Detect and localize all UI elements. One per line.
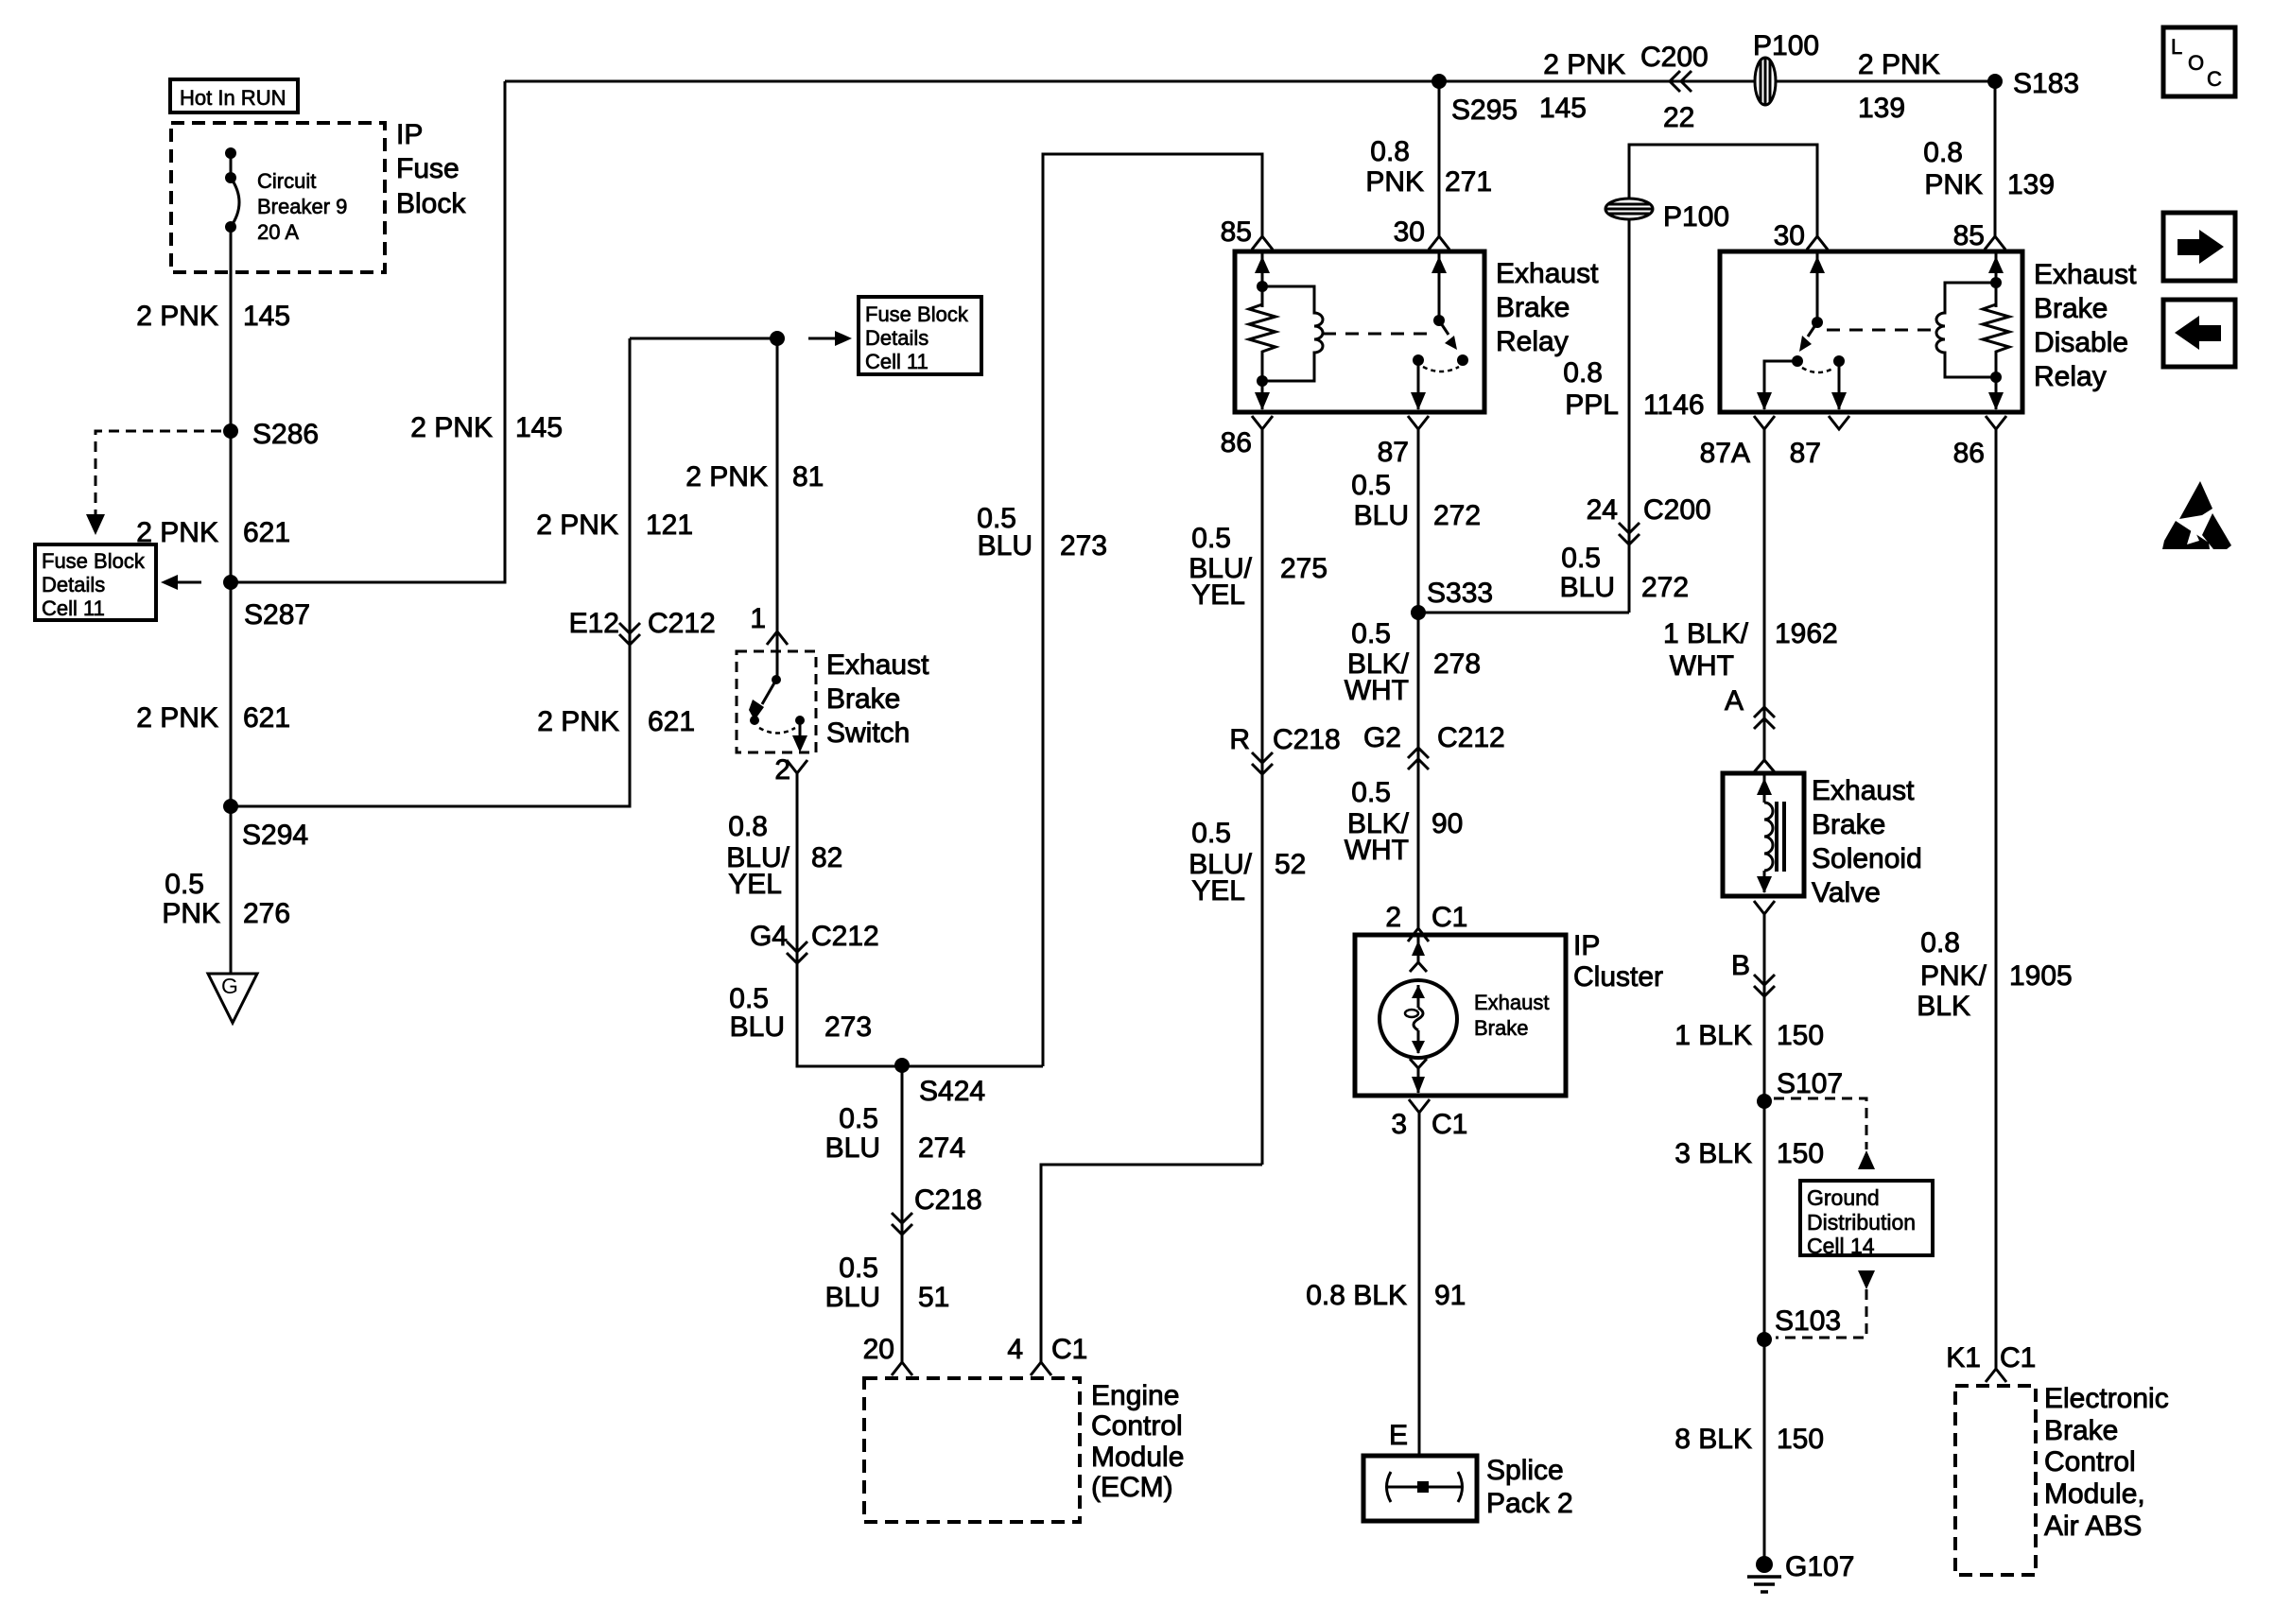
svg-text:85: 85: [1221, 216, 1252, 248]
svg-text:PPL: PPL: [1565, 389, 1619, 421]
disable relay pin 85: [1953, 220, 2005, 251]
svg-text:139: 139: [2007, 169, 2055, 200]
svg-text:2 PNK: 2 PNK: [537, 706, 619, 737]
svg-text:30: 30: [1774, 220, 1805, 251]
svg-text:E: E: [1389, 1420, 1408, 1451]
wire: pin 3 down to splice pack: [1418, 1113, 1421, 1456]
wire: disable relay 86 down to ABS module: [1995, 429, 1998, 1369]
svg-text:22: 22: [1663, 102, 1694, 133]
svg-text:2 PNK: 2 PNK: [410, 412, 493, 443]
svg-text:WHT: WHT: [1345, 675, 1409, 706]
svg-text:85: 85: [1953, 220, 1985, 251]
svg-text:30: 30: [1394, 216, 1425, 248]
svg-text:G4: G4: [750, 921, 788, 952]
exhaust brake disable relay box: [1720, 251, 2022, 412]
svg-text:121: 121: [646, 510, 693, 541]
svg-text:2: 2: [1385, 902, 1401, 933]
svg-text:Exhaust: Exhaust: [1474, 991, 1550, 1014]
svg-text:81: 81: [792, 461, 824, 492]
svg-text:S183: S183: [2013, 68, 2079, 99]
svg-text:Disable: Disable: [2034, 327, 2128, 358]
pin 2 of exhaust brake switch: [774, 754, 807, 786]
wire: disable relay pin 30 riser through P100/C200 to S333 branch: [1629, 145, 1817, 613]
ground G107: [1747, 1551, 1854, 1592]
wire label 2 PNK 139: [1858, 49, 1940, 124]
wire label 0.8 BLU/YEL 82: [726, 811, 842, 900]
wire label 2 PNK 121: [536, 510, 693, 541]
svg-text:Electronic: Electronic: [2044, 1383, 2169, 1414]
svg-text:91: 91: [1434, 1280, 1466, 1311]
disable relay pin 87A: [1700, 416, 1775, 469]
svg-text:0.5: 0.5: [1191, 818, 1231, 849]
svg-text:Circuit: Circuit: [257, 169, 316, 193]
wire label 0.8 PNK 139: [1923, 137, 2055, 200]
svg-text:274: 274: [918, 1132, 965, 1164]
wire label 0.5 BLU 273 (switch leg): [729, 983, 872, 1043]
svg-text:C212: C212: [811, 921, 879, 952]
svg-text:Cell 11: Cell 11: [865, 350, 928, 373]
wire label 0.8 PPL 1146: [1563, 357, 1704, 421]
wire label 2 PNK 621 (lower): [136, 702, 290, 734]
top bus P100 pass-through: [1753, 30, 1819, 105]
svg-text:2 PNK: 2 PNK: [136, 301, 218, 332]
svg-text:YEL: YEL: [1191, 579, 1245, 611]
svg-text:YEL: YEL: [728, 869, 782, 900]
svg-text:Valve: Valve: [1812, 877, 1881, 908]
svg-text:B: B: [1731, 950, 1750, 981]
wire label 0.5 BLK/WHT 90: [1345, 777, 1464, 866]
wire label 0.5 BLU 272 (PPL riser bottom): [1560, 543, 1689, 603]
svg-text:PNK/: PNK/: [1920, 960, 1987, 992]
wire: solenoid down to G107: [1763, 914, 1766, 1564]
exhaust brake indicator lamp: [1379, 935, 1457, 1094]
svg-text:86: 86: [1953, 438, 1985, 469]
arrow into Fuse Block Details box (middle): [808, 331, 852, 346]
wire label 2 PNK 81: [685, 461, 824, 492]
relay actuating dashed link: [1323, 333, 1430, 336]
wire label 0.5 BLU/YEL 275: [1189, 523, 1327, 611]
svg-text:IP: IP: [1573, 930, 1600, 961]
dashed reference S107 to ground distribution: [1774, 1098, 1875, 1169]
dashed reference ground distribution to S103: [1776, 1270, 1875, 1338]
svg-text:0.5: 0.5: [1351, 777, 1391, 808]
relay pin 87: [1378, 416, 1429, 468]
svg-text:IP: IP: [396, 119, 423, 150]
wire label 2 PNK 621: [136, 517, 290, 548]
svg-text:0.5: 0.5: [1561, 543, 1601, 574]
svg-text:272: 272: [1641, 572, 1689, 603]
svg-text:2 PNK: 2 PNK: [1543, 49, 1625, 80]
svg-text:BLU: BLU: [825, 1282, 880, 1313]
ECM label: [1091, 1380, 1184, 1503]
wire label 0.8 PNK/BLK 1905: [1917, 927, 2072, 1022]
circuit breaker text: [257, 169, 347, 244]
disable relay actuating dashed link: [1827, 329, 1934, 332]
exhaust brake disable relay label: [2034, 259, 2137, 392]
ECM pin 20: [863, 1334, 912, 1375]
svg-text:Details: Details: [865, 326, 928, 350]
svg-text:Engine: Engine: [1091, 1380, 1179, 1411]
relay switch contacts (30 to 87): [1411, 251, 1468, 410]
svg-text:0.5: 0.5: [839, 1253, 878, 1284]
svg-text:S103: S103: [1775, 1305, 1841, 1337]
ABS module pin K1 C1: [1946, 1342, 2036, 1382]
svg-text:C1: C1: [1431, 1109, 1467, 1140]
connector G4 C212: [750, 921, 879, 963]
svg-text:0.5: 0.5: [165, 869, 204, 900]
svg-text:87: 87: [1790, 438, 1821, 469]
svg-text:1: 1: [750, 603, 766, 634]
svg-text:Cell 11: Cell 11: [42, 596, 105, 620]
svg-text:Control: Control: [2044, 1446, 2136, 1477]
svg-text:L: L: [2171, 35, 2182, 59]
svg-text:82: 82: [811, 842, 842, 873]
svg-text:BLU: BLU: [825, 1132, 880, 1164]
Splice Pack 2 box: [1363, 1456, 1477, 1521]
svg-text:0.8: 0.8: [1923, 137, 1963, 168]
svg-text:273: 273: [1060, 530, 1107, 561]
node S287: [223, 575, 310, 631]
connector G2 C212: [1363, 722, 1505, 769]
connector R C218: [1229, 724, 1340, 774]
svg-text:0.8: 0.8: [728, 811, 768, 842]
svg-text:O: O: [2188, 51, 2204, 75]
svg-text:621: 621: [243, 702, 290, 734]
svg-text:1 BLK/: 1 BLK/: [1663, 618, 1749, 649]
svg-text:S107: S107: [1777, 1068, 1843, 1099]
wire label 0.5 BLK/WHT 278: [1345, 618, 1481, 706]
svg-text:Brake: Brake: [2044, 1415, 2118, 1446]
Ground Distribution Cell 14 box: [1800, 1181, 1933, 1258]
svg-text:2 PNK: 2 PNK: [1858, 49, 1940, 80]
svg-text:Pack 2: Pack 2: [1486, 1488, 1573, 1519]
exhaust brake relay label: [1496, 258, 1599, 357]
connector 24 C200: [1587, 494, 1711, 544]
node at fuse block branch: [770, 331, 785, 346]
svg-text:PNK: PNK: [1924, 169, 1983, 200]
ECM pin 4 C1: [1007, 1334, 1087, 1375]
wire label 1 BLK 150: [1674, 1020, 1824, 1051]
svg-text:3: 3: [1391, 1109, 1407, 1140]
svg-text:Brake: Brake: [2034, 293, 2108, 324]
svg-text:2 PNK: 2 PNK: [136, 702, 218, 734]
circuit breaker 9 (20 A) symbol: [225, 147, 239, 233]
wire label 0.5 BLU 274: [825, 1103, 965, 1164]
svg-text:20 A: 20 A: [257, 220, 299, 244]
svg-text:G107: G107: [1785, 1551, 1854, 1582]
svg-text:WHT: WHT: [1345, 835, 1409, 866]
disable relay switch contacts (30 to 87A/87): [1757, 251, 1847, 410]
svg-text:C200: C200: [1640, 42, 1709, 73]
svg-text:PNK: PNK: [1365, 166, 1424, 198]
svg-text:51: 51: [918, 1282, 949, 1313]
ESD sensitive device symbol: [2162, 481, 2231, 549]
disable relay pin 86: [1953, 416, 2006, 469]
svg-text:150: 150: [1777, 1424, 1824, 1455]
node S183: [1987, 68, 2079, 99]
svg-text:Module: Module: [1091, 1442, 1184, 1473]
disable relay pin 30: [1774, 220, 1828, 251]
relay coil branch (pin 85 to 86): [1249, 251, 1323, 410]
svg-text:0.8: 0.8: [1563, 357, 1603, 389]
svg-text:C200: C200: [1643, 494, 1711, 526]
svg-text:Air ABS: Air ABS: [2044, 1511, 2142, 1542]
svg-text:20: 20: [863, 1334, 894, 1365]
solenoid coil: [1757, 773, 1784, 893]
svg-text:BLU: BLU: [730, 1011, 785, 1043]
svg-text:S286: S286: [252, 419, 319, 450]
svg-text:0.5: 0.5: [839, 1103, 878, 1134]
wire: relay 86 down to ECM pin 4 jog: [1261, 429, 1264, 1165]
svg-text:C1: C1: [1431, 902, 1467, 933]
top bus C200 connector (22): [1539, 42, 1709, 133]
svg-text:0.5: 0.5: [1351, 470, 1391, 501]
svg-text:C212: C212: [648, 608, 716, 639]
svg-text:(ECM): (ECM): [1091, 1472, 1173, 1503]
Electronic Brake Control Module dashed box: [1955, 1386, 2036, 1575]
svg-text:8 BLK: 8 BLK: [1674, 1424, 1752, 1455]
wire: S294 right to connector E12 branch: [231, 338, 630, 806]
svg-text:Ground: Ground: [1807, 1185, 1880, 1210]
svg-text:621: 621: [648, 706, 695, 737]
exhaust brake switch label: [826, 649, 929, 749]
wire: S183 down to disable relay pin 85: [1994, 81, 1997, 236]
node S103: [1757, 1305, 1841, 1347]
svg-text:Cluster: Cluster: [1573, 961, 1663, 993]
wire: top bus: [505, 80, 1995, 83]
svg-text:Details: Details: [42, 573, 105, 596]
exhaust brake switch contacts: [749, 631, 807, 752]
node S294: [223, 799, 308, 851]
svg-text:C1: C1: [1051, 1334, 1087, 1365]
wire: switch pin 2 down to S424 run: [797, 773, 1043, 1066]
svg-text:Brake: Brake: [826, 683, 900, 715]
node S424: [894, 1058, 985, 1107]
wire: 87A down to solenoid valve: [1763, 429, 1766, 760]
disable relay pin 87: [1790, 416, 1849, 469]
svg-text:145: 145: [515, 412, 563, 443]
exhaust brake switch dashed box: [737, 651, 816, 752]
Fuse Block Details Cell 11 box (middle): [859, 297, 981, 374]
wire label 0.5 BLU/YEL 52: [1189, 818, 1306, 907]
svg-text:YEL: YEL: [1191, 875, 1245, 907]
ABS module label: [2044, 1383, 2169, 1542]
svg-text:273: 273: [824, 1011, 872, 1043]
wire label 1 BLK/WHT 1962: [1663, 618, 1838, 682]
svg-text:C218: C218: [1273, 724, 1341, 755]
svg-text:BLU: BLU: [1354, 500, 1409, 531]
svg-text:150: 150: [1777, 1020, 1824, 1051]
IP Cluster box: [1355, 935, 1566, 1096]
svg-text:C: C: [2207, 67, 2222, 91]
svg-text:2 PNK: 2 PNK: [685, 461, 768, 492]
wire label 2 PNK 145 (riser): [410, 412, 563, 443]
exhaust brake lamp text: [1474, 991, 1550, 1040]
wire: left feed from breaker down to ground: [230, 227, 233, 974]
wire label 0.8 BLK 91: [1306, 1280, 1466, 1311]
IP cluster pin 2 C1: [1385, 902, 1467, 942]
svg-text:S333: S333: [1427, 578, 1493, 609]
ground G symbol: [208, 974, 257, 1023]
svg-text:145: 145: [243, 301, 290, 332]
svg-text:PNK: PNK: [162, 898, 220, 929]
svg-text:C1: C1: [2000, 1342, 2036, 1373]
svg-text:C212: C212: [1437, 722, 1505, 753]
svg-text:2 PNK: 2 PNK: [536, 510, 618, 541]
node S107: [1757, 1068, 1843, 1109]
LOC legend box: [2163, 27, 2235, 96]
wire label 0.5 BLU 272: [1351, 470, 1481, 531]
IP Fuse Block dashed box: [171, 123, 385, 272]
svg-text:BLU: BLU: [978, 530, 1032, 561]
svg-text:4: 4: [1007, 1334, 1023, 1365]
exhaust brake relay box: [1235, 251, 1484, 412]
node S333: [1411, 578, 1493, 620]
wire: S287 right then up to top bus: [231, 81, 505, 582]
svg-text:0.8: 0.8: [1370, 136, 1410, 167]
legend arrow right box: [2163, 213, 2235, 281]
svg-text:Brake: Brake: [1496, 292, 1570, 323]
disable relay coil branch (85 to 86): [1936, 251, 2009, 410]
svg-text:BLU: BLU: [1560, 572, 1615, 603]
svg-text:Brake: Brake: [1812, 809, 1885, 840]
svg-text:Exhaust: Exhaust: [826, 649, 929, 681]
svg-text:K1: K1: [1946, 1342, 1981, 1373]
svg-text:Brake: Brake: [1474, 1016, 1528, 1040]
svg-text:Switch: Switch: [826, 717, 910, 749]
wire label 0.8 PNK 271: [1365, 136, 1492, 198]
wire: S424 down to ECM pin 20: [901, 1065, 904, 1362]
Splice Pack 2 label: [1486, 1455, 1573, 1519]
svg-text:1905: 1905: [2009, 960, 2073, 992]
wire label 3 BLK 150: [1674, 1138, 1824, 1169]
svg-text:Splice: Splice: [1486, 1455, 1564, 1486]
svg-text:87A: 87A: [1700, 438, 1750, 469]
svg-text:E12: E12: [569, 608, 619, 639]
relay pin 85: [1221, 216, 1273, 250]
wire: ECM pin 4 up and over to relay 86 leg: [1041, 1165, 1262, 1362]
connector C218: [892, 1184, 982, 1235]
svg-text:Block: Block: [396, 188, 466, 219]
svg-text:Module,: Module,: [2044, 1478, 2145, 1510]
svg-text:A: A: [1725, 685, 1744, 717]
wire label 0.5 BLU 273 (riser): [977, 503, 1107, 561]
solenoid bottom pin: [1754, 901, 1775, 914]
Engine Control Module dashed box: [864, 1378, 1080, 1522]
svg-text:0.5: 0.5: [729, 983, 769, 1014]
svg-text:Relay: Relay: [2034, 361, 2107, 392]
svg-text:150: 150: [1777, 1138, 1824, 1169]
svg-text:Exhaust: Exhaust: [1496, 258, 1599, 289]
svg-text:0.8: 0.8: [1920, 927, 1960, 959]
svg-text:C218: C218: [914, 1184, 982, 1216]
Fuse Block Details Cell 11 box (left): [35, 544, 156, 620]
pin 1 of exhaust brake switch: [750, 603, 788, 645]
IP cluster pin 3 C1: [1391, 1099, 1467, 1140]
svg-text:271: 271: [1445, 166, 1492, 198]
connector A: [1725, 685, 1775, 729]
svg-text:BLK: BLK: [1917, 991, 1970, 1022]
relay pin 30: [1394, 216, 1449, 250]
svg-text:Control: Control: [1091, 1410, 1183, 1442]
wire: S295 down to relay pin 30: [1438, 81, 1441, 236]
svg-text:Hot In RUN: Hot In RUN: [180, 86, 286, 110]
svg-text:1962: 1962: [1775, 618, 1838, 649]
wire label 2 PNK 145: [136, 301, 290, 332]
svg-text:Fuse Block: Fuse Block: [42, 549, 146, 573]
svg-text:Fuse: Fuse: [396, 153, 460, 184]
svg-text:1146: 1146: [1643, 389, 1705, 421]
svg-text:Cell 14: Cell 14: [1807, 1234, 1875, 1258]
svg-text:P100: P100: [1663, 201, 1729, 233]
svg-text:139: 139: [1858, 93, 1905, 124]
svg-text:90: 90: [1431, 808, 1463, 839]
svg-text:S287: S287: [244, 599, 310, 631]
svg-text:275: 275: [1280, 553, 1327, 584]
wire: S333 right to disable relay branch: [1418, 612, 1629, 614]
connector E12 C212: [569, 608, 716, 645]
node S295: [1431, 74, 1518, 126]
svg-text:WHT: WHT: [1670, 650, 1734, 682]
relay pin 86: [1221, 416, 1273, 458]
svg-text:Fuse Block: Fuse Block: [865, 302, 969, 326]
svg-text:52: 52: [1275, 849, 1306, 880]
svg-text:S295: S295: [1451, 95, 1518, 126]
svg-text:G: G: [221, 974, 238, 998]
node S286: [223, 419, 319, 450]
svg-text:145: 145: [1539, 93, 1587, 124]
Exhaust Brake Solenoid Valve box: [1723, 773, 1804, 896]
svg-text:621: 621: [243, 517, 290, 548]
wire label 8 BLK 150: [1674, 1424, 1824, 1455]
legend arrow left box: [2163, 300, 2235, 367]
svg-text:278: 278: [1433, 648, 1481, 680]
solenoid valve label: [1812, 775, 1922, 908]
svg-text:87: 87: [1378, 437, 1409, 468]
svg-text:Relay: Relay: [1496, 326, 1569, 357]
connector B: [1731, 950, 1775, 996]
svg-text:Distribution: Distribution: [1807, 1210, 1916, 1235]
wire: down to switch pin 1: [776, 338, 779, 631]
svg-text:S424: S424: [919, 1076, 985, 1107]
wire: relay 87 down to IP cluster pin 2: [1417, 429, 1420, 928]
wire label 2 PNK 621 (E12 branch): [537, 706, 695, 737]
svg-text:S294: S294: [242, 820, 308, 851]
IP Cluster label: [1573, 930, 1663, 993]
svg-text:86: 86: [1221, 427, 1252, 458]
Hot In RUN label box: [170, 79, 298, 112]
svg-text:R: R: [1229, 724, 1250, 755]
wire label 0.5 BLU 51: [825, 1253, 950, 1313]
svg-text:Breaker 9: Breaker 9: [257, 195, 347, 218]
solenoid top pin: [1754, 760, 1775, 772]
dashed reference from S286 to Fuse Block Details: [86, 431, 221, 535]
svg-text:G2: G2: [1363, 722, 1401, 753]
IP Fuse Block label: [396, 119, 466, 219]
svg-text:0.8 BLK: 0.8 BLK: [1306, 1280, 1407, 1311]
wire: long 273 riser to relay pin 85: [1043, 154, 1262, 1066]
svg-text:24: 24: [1587, 494, 1618, 526]
svg-text:Exhaust: Exhaust: [2034, 259, 2137, 290]
wire label 0.5 PNK 276: [162, 869, 290, 929]
svg-text:1 BLK: 1 BLK: [1674, 1020, 1752, 1051]
arrow from S287 into Fuse Block Details box: [161, 575, 201, 590]
P100 pass-through (PPL riser): [1605, 199, 1729, 233]
svg-text:3 BLK: 3 BLK: [1674, 1138, 1752, 1169]
svg-text:276: 276: [243, 898, 290, 929]
svg-text:Solenoid: Solenoid: [1812, 843, 1922, 874]
svg-text:272: 272: [1433, 500, 1481, 531]
